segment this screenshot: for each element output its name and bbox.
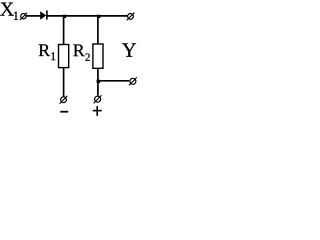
label Y: [122, 43, 136, 56]
node junction R1 top: [63, 15, 66, 18]
terminal output bottom-right: [129, 77, 137, 85]
wire R1 bottom: [63, 68, 65, 97]
node junction bottom: [97, 80, 100, 83]
resistor R1: [59, 45, 69, 68]
wire input terminal to diode: [26, 15, 40, 17]
label X1: [0, 3, 18, 20]
diode: [40, 10, 47, 19]
terminal X1 input: [20, 13, 27, 21]
node junction R2 top: [97, 15, 100, 18]
label plus: [93, 106, 102, 116]
wire diode to top-right terminal: [47, 15, 128, 17]
resistor R2: [93, 44, 103, 68]
label R1: [39, 44, 56, 60]
label minus: [60, 111, 68, 113]
label R2: [73, 44, 89, 60]
wire R2 bottom: [97, 68, 99, 95]
wire junction to right terminal: [98, 80, 129, 82]
terminal plus: [94, 95, 102, 103]
terminal minus: [60, 96, 68, 104]
wire R1 top: [63, 16, 65, 45]
wire R2 top: [97, 16, 99, 45]
terminal output top-right: [127, 13, 135, 21]
